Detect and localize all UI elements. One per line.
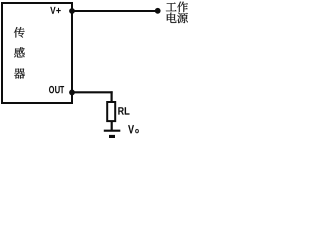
wire down to resistor (110, 91, 112, 102)
node V+ junction dot (69, 8, 75, 14)
wire resistor to ground (111, 121, 113, 131)
wire V+ to power terminal (72, 10, 158, 12)
output label Vo (128, 125, 139, 133)
power label char 电 (167, 13, 177, 23)
power label char 作 (177, 2, 188, 13)
sensor label char 感 (14, 47, 25, 57)
node OUT junction dot (69, 90, 75, 96)
ground bar 1 (104, 130, 121, 132)
sensor box (2, 3, 72, 103)
pin label V+ (50, 7, 60, 14)
resistor RL body (107, 102, 115, 121)
wire OUT horizontal (72, 91, 113, 93)
sensor label char 器 (14, 68, 25, 78)
pin label OUT (49, 86, 64, 93)
value label RL (118, 107, 129, 114)
power label char 源 (177, 13, 188, 23)
sensor label char 传 (14, 27, 25, 38)
power label char 工 (166, 3, 177, 12)
power terminal dot (155, 8, 161, 14)
ground bar 2 (109, 135, 115, 138)
